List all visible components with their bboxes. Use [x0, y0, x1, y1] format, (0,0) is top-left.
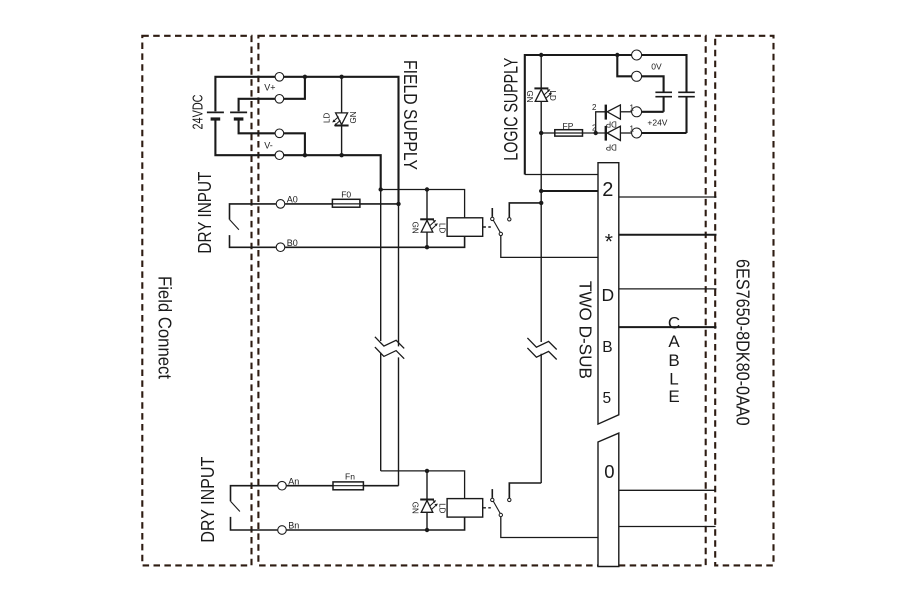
LED GN/LD lower channel [420, 471, 438, 530]
node: V- riser junction [303, 153, 307, 157]
wire B0 row [285, 236, 465, 247]
svg-text:Fn: Fn [345, 471, 355, 481]
terminal 0V a [632, 50, 642, 60]
wire Bn row [287, 517, 465, 530]
svg-text:E: E [668, 387, 679, 406]
svg-text:DP: DP [606, 143, 617, 152]
LED GN/LD upper channel [420, 190, 438, 248]
FP fuse row [541, 132, 555, 134]
svg-text:2: 2 [602, 179, 613, 201]
battery 24VDC inner: plates [230, 111, 247, 113]
wire D-SUB pin2 row [541, 190, 598, 192]
svg-text:LD: LD [438, 503, 447, 513]
svg-text:24VDC: 24VDC [190, 94, 207, 129]
0V drop [617, 55, 632, 76]
wire circleL3 row [641, 111, 663, 113]
wire: field supply top (V+) [215, 77, 398, 204]
diode pin labels [592, 103, 635, 134]
svg-text:DRY INPUT: DRY INPUT [198, 457, 218, 543]
wire opto top link lower [381, 471, 465, 499]
svg-text:LOGIC SUPPLY: LOGIC SUPPLY [502, 57, 523, 160]
D-SUB right wires lower [619, 489, 716, 491]
capacitor C2 [678, 91, 695, 93]
svg-text:C: C [668, 313, 680, 332]
svg-text:L: L [669, 370, 678, 389]
terminal B0 [276, 243, 285, 252]
D-SUB right wires upper [619, 196, 717, 198]
terminal V+ b [275, 95, 284, 104]
svg-text:DRY INPUT: DRY INPUT [195, 172, 215, 254]
switch link dash lower [483, 507, 491, 509]
svg-text:B: B [668, 351, 679, 370]
node links upper [379, 187, 383, 191]
terminal 0V b [632, 71, 642, 81]
svg-text:2: 2 [592, 103, 597, 112]
opto coupler lower [447, 499, 483, 517]
svg-text:GN: GN [411, 502, 420, 514]
svg-text:Bn: Bn [288, 520, 299, 530]
node: field LED top junction [339, 75, 343, 79]
dashed enclosure: module box [258, 36, 705, 566]
fuse labels [341, 121, 573, 482]
svg-text:An: An [288, 477, 299, 487]
svg-text:2: 2 [592, 124, 597, 133]
fuse Fn [333, 482, 363, 490]
D-SUB connector lower [598, 433, 619, 566]
svg-text:F0: F0 [341, 190, 351, 200]
terminal Bn [278, 526, 287, 535]
wire A0 row [285, 203, 398, 205]
terminal V- b [275, 151, 284, 160]
rail: field V+ right rail [398, 204, 400, 347]
svg-text:LD: LD [322, 113, 331, 123]
dry contact lower [231, 486, 278, 502]
wire: V+2 riser to top wire [279, 77, 305, 99]
logic supply top wire [525, 55, 687, 175]
svg-text:V+: V+ [264, 83, 275, 93]
logic rail [540, 55, 542, 342]
wire An row [287, 485, 399, 487]
DP labels [606, 120, 617, 152]
svg-text:D: D [601, 285, 614, 305]
node: V+ riser junction [303, 75, 307, 79]
svg-text:B0: B0 [287, 238, 298, 248]
svg-text:FIELD SUPPLY: FIELD SUPPLY [400, 60, 420, 170]
svg-text:GN: GN [349, 111, 358, 123]
switch upper [491, 203, 598, 258]
wire circleL4 row [641, 132, 686, 134]
LED GN/LD logic supply [534, 88, 552, 101]
svg-text:*: * [605, 231, 613, 254]
terminal labels [264, 62, 668, 531]
cable break symbol field rails [375, 337, 404, 349]
svg-text:LD: LD [548, 91, 557, 101]
wire: field supply bottom (V-) [215, 120, 380, 189]
dashed enclosure: Field Connect box [142, 36, 251, 566]
battery 24VDC outer: plates [207, 111, 224, 113]
LED LD/GN field supply [332, 77, 348, 155]
D-SUB connector upper [598, 163, 619, 424]
dry contact upper [230, 204, 276, 220]
terminal V- a [275, 129, 284, 138]
switch lower [491, 483, 598, 538]
capacitor C1 [655, 91, 672, 93]
svg-text:1: 1 [630, 103, 635, 112]
svg-text:A: A [668, 332, 680, 351]
node: field LED bottom junction [339, 153, 343, 157]
terminal A0 [276, 200, 285, 209]
switch link dash upper [483, 226, 491, 228]
terminal V+ a [275, 73, 284, 82]
svg-text:FP: FP [563, 121, 574, 131]
dashed enclosure: cable box [715, 36, 773, 566]
node A0-rail [396, 202, 400, 206]
svg-text:GN: GN [525, 91, 534, 103]
svg-text:DP: DP [606, 120, 617, 129]
opto coupler upper [447, 218, 483, 237]
svg-text:Field Connect: Field Connect [155, 276, 176, 379]
diode D1 [606, 105, 632, 120]
terminal +24V b [632, 128, 642, 138]
svg-text:1: 1 [630, 125, 635, 134]
svg-text:6ES7650-8DK80-0AA0: 6ES7650-8DK80-0AA0 [732, 259, 752, 426]
svg-text:+24V: +24V [647, 117, 667, 127]
wire: V-1 riser to bottom wire [279, 133, 305, 155]
cable break symbol logic rail [527, 338, 556, 350]
cap1 riser [641, 76, 663, 92]
terminal +24V a [632, 107, 642, 117]
svg-text:GN: GN [411, 222, 420, 234]
wire opto top link upper [381, 190, 465, 218]
svg-text:0V: 0V [651, 62, 662, 72]
wire: inner battery jumper V+2 to V-1 [239, 99, 280, 111]
terminal An [278, 481, 287, 490]
riser to diode1 [596, 112, 606, 133]
wire to D-SUB above pin2 [525, 174, 598, 176]
diode D2 [606, 126, 632, 141]
svg-text:B: B [602, 339, 612, 356]
svg-text:5: 5 [602, 390, 611, 407]
fuse F0 [332, 199, 360, 207]
svg-text:TWO D-SUB: TWO D-SUB [575, 281, 595, 379]
rail: field V- left rail [380, 190, 382, 342]
svg-text:LD: LD [438, 223, 447, 233]
svg-text:A0: A0 [287, 195, 298, 205]
svg-text:V-: V- [264, 141, 273, 151]
svg-text:0: 0 [604, 461, 614, 482]
